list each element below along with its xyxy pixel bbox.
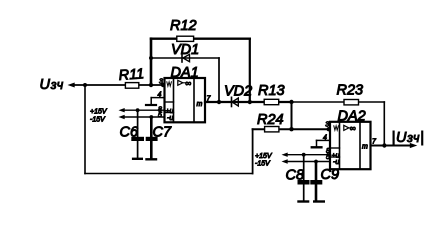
output arrow <box>384 145 411 147</box>
svg-text:VD2: VD2 <box>224 84 252 100</box>
node C6 tap <box>136 108 140 112</box>
wire VD1 drop <box>218 58 220 102</box>
wire junction drop <box>291 102 293 129</box>
node summing junction <box>149 83 153 87</box>
node VD1 tap <box>149 56 153 60</box>
svg-text:R12: R12 <box>170 18 197 34</box>
svg-text:∞: ∞ <box>185 78 191 88</box>
node C8 tap <box>302 153 306 157</box>
svg-text:|Uзч|: |Uзч| <box>392 130 425 146</box>
node C7 tap <box>149 115 153 119</box>
svg-text:+15V: +15V <box>90 109 108 116</box>
svg-text:-15V: -15V <box>255 161 271 168</box>
svg-text:R11: R11 <box>118 66 145 84</box>
svg-text:m: m <box>362 144 368 151</box>
wire riser to R24 <box>252 129 254 173</box>
op-amp DA2 <box>323 109 371 170</box>
svg-text:R13: R13 <box>258 83 285 99</box>
svg-text:Uзч: Uзч <box>40 77 64 93</box>
wire bottom run <box>85 173 252 175</box>
op-amp DA1 <box>158 65 206 122</box>
wire VD1 branch <box>151 57 219 59</box>
input terminal arrow <box>68 83 75 88</box>
svg-text:m: m <box>197 101 203 108</box>
wire input line <box>73 84 165 86</box>
node R13/R23 junction <box>289 100 293 104</box>
svg-text:R23: R23 <box>337 83 364 99</box>
svg-text:VD1: VD1 <box>171 42 199 58</box>
wire input drop <box>84 85 86 174</box>
svg-text:5: 5 <box>158 112 162 119</box>
svg-text:-u: -u <box>333 159 339 166</box>
svg-text:R24: R24 <box>257 112 284 128</box>
ground pin4 DA2 <box>317 139 331 141</box>
wire R23 drop <box>383 102 385 146</box>
svg-text:-u: -u <box>167 115 173 122</box>
ground pin4 DA1 <box>151 97 164 99</box>
node input junction <box>83 83 87 87</box>
svg-text:∞: ∞ <box>350 123 356 133</box>
svg-text:+15V: +15V <box>255 153 273 160</box>
svg-text:+u: +u <box>166 108 174 115</box>
node R12/output junction <box>248 100 252 104</box>
node output junction <box>382 143 386 147</box>
wire R12 right drop <box>249 39 251 102</box>
svg-text:C9: C9 <box>321 167 340 183</box>
node C9 tap <box>314 160 318 164</box>
wire summing riser <box>150 39 153 85</box>
svg-text:-15V: -15V <box>90 117 106 124</box>
node VD1/output junction <box>217 100 221 104</box>
